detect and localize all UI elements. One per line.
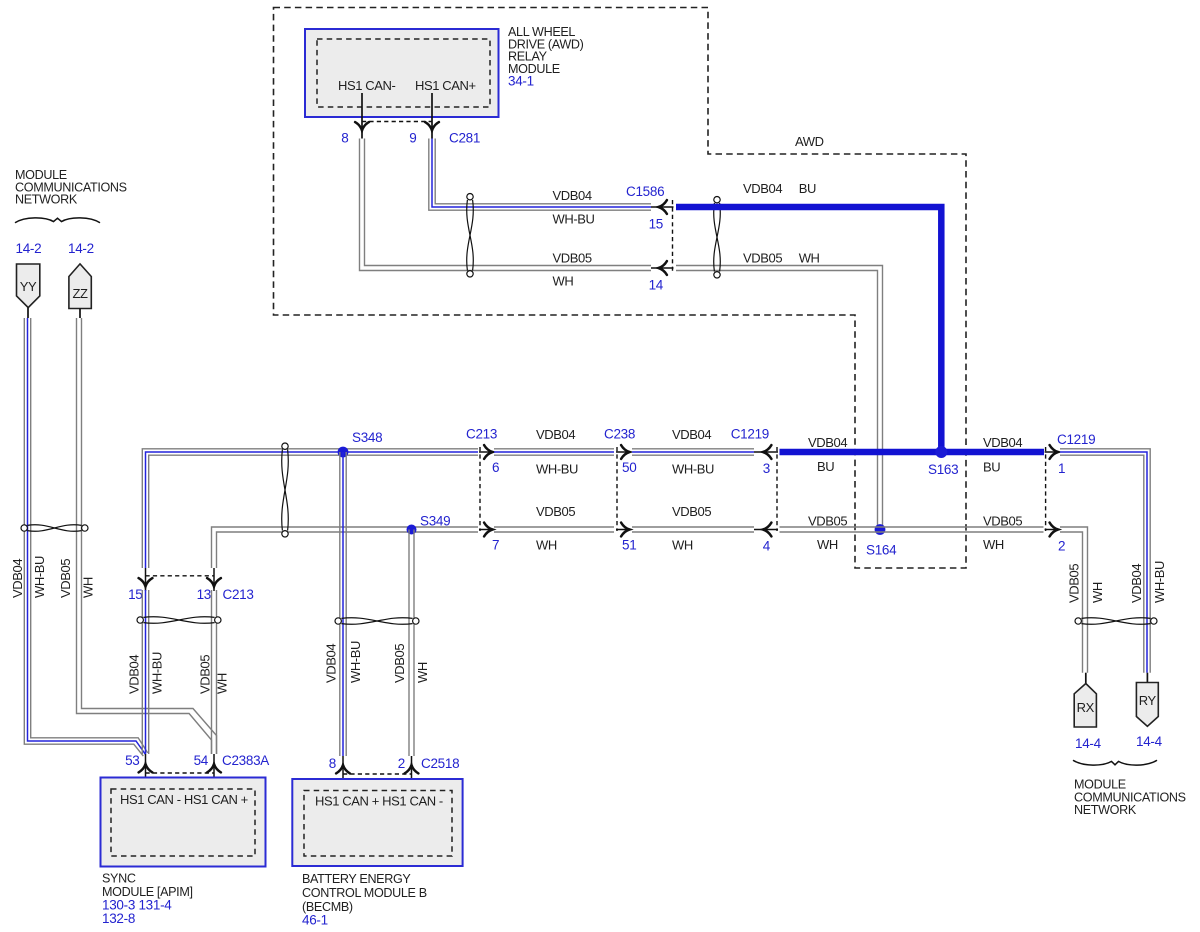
connector ZZ <box>69 264 91 309</box>
svg-text:7: 7 <box>492 538 499 553</box>
svg-text:14-2: 14-2 <box>68 241 94 256</box>
svg-text:C238: C238 <box>604 427 635 442</box>
module U3 BATTERY ENERGY CONTROL MODULE B box <box>292 779 462 866</box>
pin 1 arrow of C1219 <box>1045 451 1060 453</box>
pin 7 arrow of C213 <box>479 529 494 531</box>
svg-text:S163: S163 <box>928 462 958 477</box>
pin 50 arrow of C238 <box>616 451 631 453</box>
pin 14 arrow of C1586 <box>651 267 674 269</box>
pin 6 arrow of C213 <box>479 451 494 453</box>
wire VDB05 WH from S349 down to BECMB pin 2 <box>408 530 410 757</box>
svg-text:2: 2 <box>398 756 405 771</box>
svg-text:50: 50 <box>622 460 636 475</box>
splice S163 <box>935 446 947 458</box>
pin 8 of C281 stub and arrow <box>361 93 363 139</box>
connector C1219 left dashed line <box>776 447 778 531</box>
svg-text:VDB04: VDB04 <box>324 644 339 683</box>
wire VDB05 WH row D left from C213 pin 7 down to pin 54 <box>212 527 479 568</box>
svg-text:VDB04: VDB04 <box>10 559 25 598</box>
svg-text:15: 15 <box>128 587 142 602</box>
pin 3 arrow of C1219 <box>754 451 778 453</box>
pin 53 arrow of C2383A <box>145 754 147 790</box>
connector RX <box>1085 673 1087 684</box>
svg-text:WH: WH <box>81 577 96 598</box>
wire VDB05 WH from C1219 pin 2 down to RX <box>1060 527 1088 673</box>
svg-text:BATTERY ENERGY: BATTERY ENERGY <box>302 872 411 886</box>
svg-text:VDB04: VDB04 <box>808 435 847 450</box>
twisted pair symbol SYNC pair <box>137 617 221 624</box>
svg-text:VDB04: VDB04 <box>672 427 711 442</box>
svg-text:C1219: C1219 <box>1057 432 1095 447</box>
svg-text:S349: S349 <box>420 514 450 529</box>
twisted pair symbol BECMB pair <box>335 618 419 625</box>
svg-text:VDB04: VDB04 <box>536 427 575 442</box>
svg-text:VDB05: VDB05 <box>392 644 407 683</box>
svg-text:VDB05: VDB05 <box>553 251 592 266</box>
svg-text:WH: WH <box>817 537 838 552</box>
svg-text:14-2: 14-2 <box>16 241 42 256</box>
module U3 inner dashed connector box <box>304 791 452 857</box>
connector C1586 dashed line <box>672 200 674 272</box>
svg-text:51: 51 <box>622 538 636 553</box>
brace top left <box>15 218 100 223</box>
pin 54 arrow of C2383A <box>213 754 215 790</box>
svg-text:VDB05: VDB05 <box>983 514 1022 529</box>
svg-text:WH: WH <box>553 274 574 289</box>
svg-text:C213: C213 <box>466 427 497 442</box>
svg-text:SYNC: SYNC <box>102 872 136 886</box>
svg-text:14-4: 14-4 <box>1075 736 1102 751</box>
svg-text:C1219: C1219 <box>731 427 769 442</box>
svg-text:WH-BU: WH-BU <box>536 462 578 477</box>
svg-text:46-1: 46-1 <box>302 913 328 928</box>
svg-text:1: 1 <box>1058 461 1065 476</box>
wire VDB04 WH-BU row C between C238 and C1219 <box>632 448 754 450</box>
svg-text:YY: YY <box>20 279 37 294</box>
svg-text:8: 8 <box>341 131 348 146</box>
svg-text:6: 6 <box>492 460 499 475</box>
svg-text:VDB05: VDB05 <box>197 655 212 694</box>
module U1 inner dashed connector box <box>317 39 490 107</box>
pin 9 of C281 stub and arrow <box>431 93 433 139</box>
connector RY <box>1146 673 1148 683</box>
svg-text:VDB05: VDB05 <box>536 504 575 519</box>
twisted pair symbol left pair <box>21 525 88 532</box>
svg-text:VDB05: VDB05 <box>1067 564 1082 603</box>
svg-text:RY: RY <box>1139 693 1157 708</box>
svg-text:BU: BU <box>799 181 816 196</box>
wire VDB04 WH-BU from C1219 pin 1 down to RY <box>1060 449 1150 673</box>
svg-text:4: 4 <box>763 539 771 554</box>
twisted pair symbol right of C1586 <box>714 197 721 278</box>
connector YY <box>17 264 40 308</box>
wire VDB05 WH from pin 8 to C1586 pin 14 <box>360 139 652 271</box>
svg-text:WH-BU: WH-BU <box>348 641 363 683</box>
svg-text:14-4: 14-4 <box>1136 734 1163 749</box>
svg-text:C213: C213 <box>223 587 254 602</box>
AWD harness dashed boundary <box>274 8 967 569</box>
wire VDB05 WH row D between C213 and C238 <box>494 526 614 528</box>
svg-text:C2518: C2518 <box>421 756 459 771</box>
svg-text:VDB04: VDB04 <box>553 188 592 203</box>
connector C238 dashed line <box>616 447 618 531</box>
twisted pair symbol right pair <box>1075 618 1157 625</box>
svg-text:VDB05: VDB05 <box>808 514 847 529</box>
svg-text:VDB05: VDB05 <box>743 251 782 266</box>
wire VDB04 BU thick from C1219 pin 3 through S163 to C1219 pin 1 <box>780 449 1045 456</box>
pin 2 arrow of C1219 <box>1045 529 1060 531</box>
svg-text:S164: S164 <box>866 543 897 558</box>
wire VDB04 WH-BU from YY down to SYNC pin 53 <box>24 318 143 756</box>
wire VDB05 WH row D between C238 and C1219 <box>632 526 754 528</box>
svg-text:AWD: AWD <box>795 134 824 149</box>
svg-text:13: 13 <box>197 587 211 602</box>
connector C2383A dashed line <box>146 772 215 774</box>
connector C213 vertical instance dashed line <box>146 575 215 577</box>
connector C1219 right dashed line <box>1045 447 1047 531</box>
wire VDB04 WH-BU row C between C213 and C238 <box>494 448 614 450</box>
svg-text:54: 54 <box>194 753 209 768</box>
twisted pair symbol top left <box>467 194 474 277</box>
wire VDB05 WH row D from C1219 pin 4 through S164 to C1219 pin 2 <box>780 526 1044 528</box>
svg-text:VDB04: VDB04 <box>1129 564 1144 603</box>
svg-text:WH-BU: WH-BU <box>1152 561 1167 603</box>
svg-text:34-1: 34-1 <box>508 74 534 89</box>
svg-text:NETWORK: NETWORK <box>1074 803 1137 817</box>
svg-text:WH: WH <box>415 662 430 683</box>
connector C281 dashed line <box>362 121 432 123</box>
svg-text:WH-BU: WH-BU <box>150 652 165 694</box>
wire VDB05 WH from C1586 pin 14 down to S164 <box>676 266 883 530</box>
splice S349 <box>407 525 417 535</box>
svg-text:HS1 CAN - HS1 CAN +: HS1 CAN - HS1 CAN + <box>120 792 248 807</box>
svg-text:HS1 CAN+: HS1 CAN+ <box>415 78 476 93</box>
wire VDB05 WH from ZZ down to SYNC pin 54 <box>77 318 212 754</box>
svg-text:WH-BU: WH-BU <box>553 212 595 227</box>
pin 2 arrow of C2518 <box>411 756 413 791</box>
svg-text:WH: WH <box>672 538 693 553</box>
wire VDB04 WH-BU row C left from C213 pin 6 down to pin 53 <box>142 449 478 568</box>
svg-text:HS1 CAN-: HS1 CAN- <box>338 78 396 93</box>
twisted pair symbol rows C/D <box>282 443 289 537</box>
svg-text:WH: WH <box>215 673 230 694</box>
wire VDB05 WH C213 pin13 to SYNC pin 54 <box>211 590 213 754</box>
pin 51 arrow of C238 <box>616 529 631 531</box>
svg-text:BU: BU <box>817 459 834 474</box>
svg-text:CONTROL MODULE B: CONTROL MODULE B <box>302 886 427 900</box>
wire VDB04 BU thick from C1586 pin 15 to S163 <box>676 207 941 452</box>
wire VDB04 WH-BU from S348 down to BECMB pin 8 <box>339 452 341 756</box>
svg-text:WH-BU: WH-BU <box>32 556 47 598</box>
wire VDB04 WH-BU from pin 9 to C1586 pin 15 <box>429 139 651 211</box>
pin 15 arrow of C1586 <box>651 206 674 208</box>
svg-text:VDB04: VDB04 <box>983 435 1022 450</box>
svg-text:WH: WH <box>1090 582 1105 603</box>
svg-text:C281: C281 <box>449 131 480 146</box>
module U2 inner dashed connector box <box>111 789 255 856</box>
svg-text:WH: WH <box>983 537 1004 552</box>
connector C213 dashed line (rows) <box>479 447 481 531</box>
pin 13 arrow of C213 <box>213 568 215 591</box>
svg-text:2: 2 <box>1058 539 1065 554</box>
svg-text:132-8: 132-8 <box>102 911 135 926</box>
svg-text:S348: S348 <box>352 430 382 445</box>
svg-text:WH: WH <box>536 538 557 553</box>
svg-text:WH-BU: WH-BU <box>672 462 714 477</box>
svg-text:9: 9 <box>409 131 416 146</box>
svg-text:ZZ: ZZ <box>72 286 88 301</box>
svg-text:RX: RX <box>1077 700 1095 715</box>
svg-text:C2383A: C2383A <box>222 753 269 768</box>
pin 8 arrow of C2518 <box>342 756 344 791</box>
svg-text:NETWORK: NETWORK <box>15 193 78 207</box>
splice S348 <box>338 447 349 458</box>
pin 4 arrow of C1219 <box>754 529 778 531</box>
svg-text:VDB05: VDB05 <box>58 559 73 598</box>
svg-text:VDB04: VDB04 <box>743 181 782 196</box>
svg-text:3: 3 <box>763 461 770 476</box>
svg-text:VDB05: VDB05 <box>672 504 711 519</box>
wire VDB04 WH-BU C213 pin15 to SYNC pin 53 <box>141 590 143 754</box>
svg-text:BU: BU <box>983 460 1000 475</box>
module U1 ALL WHEEL DRIVE (AWD) RELAY MODULE box <box>305 29 499 117</box>
svg-text:WH: WH <box>799 251 820 266</box>
svg-text:53: 53 <box>125 753 139 768</box>
module U2 SYNC MODULE box <box>101 778 266 867</box>
splice S164 <box>875 524 886 535</box>
svg-text:HS1 CAN + HS1 CAN -: HS1 CAN + HS1 CAN - <box>315 794 443 809</box>
svg-text:C1586: C1586 <box>626 184 664 199</box>
svg-text:VDB04: VDB04 <box>127 655 142 694</box>
connector C2518 dashed line <box>343 773 412 775</box>
svg-text:14: 14 <box>649 278 664 293</box>
brace bottom right <box>1073 760 1157 765</box>
pin 15 arrow of C213 <box>145 568 147 591</box>
svg-text:8: 8 <box>329 756 336 771</box>
svg-text:15: 15 <box>649 217 663 232</box>
